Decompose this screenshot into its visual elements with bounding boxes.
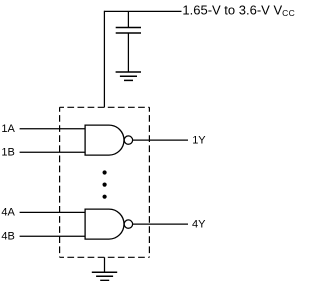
svg-text:4B: 4B — [1, 230, 14, 242]
ground (capacitor) — [116, 72, 141, 80]
ellipsis dot 2 — [103, 183, 107, 187]
capacitor C1 (bypass) — [116, 28, 141, 34]
wire capacitor bottom lead — [127, 33, 129, 72]
IC package boundary (dashed box) — [60, 107, 150, 257]
NAND gate U1A body — [85, 125, 124, 155]
wire IC ground lead — [104, 257, 106, 272]
NAND gate U1D inverter bubble — [124, 220, 132, 228]
wire input 1A — [20, 128, 86, 130]
ellipsis dot 1 — [103, 170, 107, 174]
wire input 1B — [20, 151, 86, 153]
wire input 4A — [20, 211, 86, 213]
wire VCC drop to IC pin — [103, 11, 105, 108]
svg-text:4A: 4A — [1, 207, 15, 219]
wire output 1Y — [133, 139, 188, 141]
svg-text:1B: 1B — [1, 146, 14, 158]
wire capacitor top lead — [127, 11, 129, 27]
svg-text:4Y: 4Y — [192, 218, 206, 230]
NAND gate U1A inverter bubble — [124, 136, 132, 144]
ellipsis dot 3 — [103, 195, 107, 199]
wire input 4B — [20, 235, 86, 237]
svg-text:1.65-V to 3.6-V VCC: 1.65-V to 3.6-V VCC — [182, 3, 295, 18]
wire VCC top rail — [104, 10, 181, 12]
svg-text:1Y: 1Y — [192, 134, 206, 146]
svg-text:1A: 1A — [1, 123, 15, 135]
NAND gate U1D body — [85, 209, 124, 239]
ground (IC) — [92, 272, 117, 280]
wire output 4Y — [133, 223, 188, 225]
